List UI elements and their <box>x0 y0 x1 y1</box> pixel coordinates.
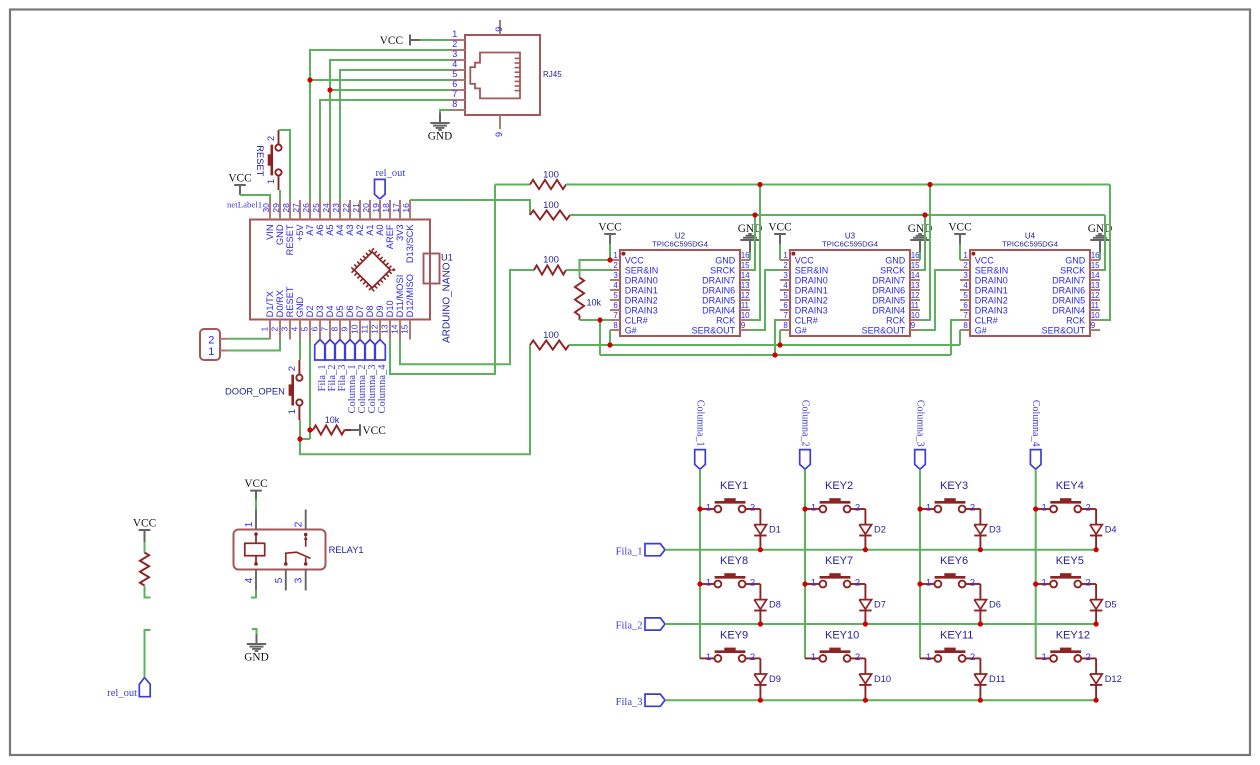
arduino pin 12 (D9) <box>370 306 385 340</box>
wire SER resistor to U2 SER&IN <box>566 269 610 271</box>
svg-text:1: 1 <box>260 327 270 332</box>
svg-text:10k: 10k <box>587 298 602 308</box>
wire Fila_1 row bus <box>665 549 1096 551</box>
svg-text:9: 9 <box>494 132 504 137</box>
junction D11 on Fila_3 <box>978 698 983 703</box>
svg-text:4: 4 <box>244 577 255 583</box>
U4 pin 16 (GND) <box>1065 251 1100 265</box>
U2 pin 12 (DRAIN5) <box>702 291 750 305</box>
svg-text:DRAIN6: DRAIN6 <box>872 285 905 295</box>
svg-text:KEY9: KEY9 <box>720 630 748 642</box>
svg-text:GND: GND <box>908 223 932 235</box>
wire CLR# bus <box>600 354 951 356</box>
svg-text:VCC: VCC <box>948 221 971 233</box>
wire rel_out stub <box>145 630 151 678</box>
svg-text:30: 30 <box>261 203 271 213</box>
svg-text:DRAIN3: DRAIN3 <box>625 305 658 315</box>
svg-text:GND: GND <box>1065 255 1086 265</box>
svg-text:KEY6: KEY6 <box>940 555 968 567</box>
wire RJ45 pin8 to GND <box>440 110 450 113</box>
svg-text:26: 26 <box>301 203 311 213</box>
svg-text:100: 100 <box>543 200 559 211</box>
svg-text:D4: D4 <box>1105 525 1117 535</box>
svg-text:1: 1 <box>926 578 931 589</box>
svg-text:5: 5 <box>613 291 618 300</box>
wire KEY10 pin2 corner <box>864 657 866 659</box>
junction RJS45 pin6/pin3 net <box>327 87 332 92</box>
relay pin 5 <box>274 570 286 591</box>
svg-text:25: 25 <box>311 203 321 213</box>
wire D11/MOSI to SER riser <box>400 270 534 364</box>
svg-text:16: 16 <box>1091 251 1100 260</box>
junction KEY7 pin1 on column <box>802 581 807 586</box>
svg-text:2: 2 <box>963 261 968 270</box>
net label flag rel_out bottom left <box>107 678 150 700</box>
svg-text:DRAIN0: DRAIN0 <box>795 275 828 285</box>
net label netLabel1 <box>227 200 262 210</box>
diode D11 <box>974 658 1005 700</box>
svg-text:1: 1 <box>706 578 711 589</box>
U4 pin 14 (DRAIN7) <box>1052 271 1100 285</box>
svg-text:D7: D7 <box>874 600 886 610</box>
svg-text:D11: D11 <box>989 674 1005 684</box>
svg-text:D5: D5 <box>335 306 345 318</box>
power flag VCC above pull resistor <box>133 517 156 542</box>
svg-text:TPIC6C595DG4: TPIC6C595DG4 <box>652 240 709 249</box>
diode D6 <box>974 584 1001 624</box>
resistor 100 SRCK bus <box>530 200 570 220</box>
svg-text:7: 7 <box>452 89 457 99</box>
U4 pin 6 (DRAIN3) <box>960 301 1008 315</box>
junction KEY4 pin1 on column <box>1033 506 1038 511</box>
wire connector pin2 to D1/TX <box>229 338 269 341</box>
svg-text:D9: D9 <box>375 306 385 318</box>
wire resistor bottom stub <box>145 586 151 598</box>
arduino pin 8 (D5) <box>330 306 345 340</box>
svg-text:D10: D10 <box>874 674 891 684</box>
svg-text:14: 14 <box>1091 271 1100 280</box>
svg-text:3V3: 3V3 <box>395 224 405 241</box>
wire SRCK bus <box>570 214 1105 216</box>
svg-text:KEY5: KEY5 <box>1056 555 1084 567</box>
svg-text:1: 1 <box>811 652 816 663</box>
svg-text:DRAIN0: DRAIN0 <box>625 275 658 285</box>
net label flag Fila_2 under arduino <box>325 340 338 392</box>
svg-text:10k: 10k <box>325 415 340 425</box>
wire VCC to RJ45 pin1 <box>420 39 450 41</box>
junction U3 CLR# on bus <box>772 352 777 357</box>
svg-text:22: 22 <box>341 203 351 213</box>
svg-text:A5: A5 <box>325 224 335 235</box>
wire D2 net corner <box>300 438 310 440</box>
pushbutton KEY2 <box>805 480 865 513</box>
svg-text:DRAIN7: DRAIN7 <box>1052 275 1085 285</box>
power flag VCC at RJ45 pin 1 <box>380 35 420 48</box>
wire KEY6 pin2 corner <box>979 583 981 585</box>
svg-text:DRAIN2: DRAIN2 <box>795 295 828 305</box>
wire D2 net to G# bus riser <box>300 345 530 454</box>
svg-text:D12: D12 <box>1105 674 1122 684</box>
svg-text:1: 1 <box>706 652 711 663</box>
wire U4 RCK riser <box>1100 185 1110 321</box>
svg-text:KEY3: KEY3 <box>940 480 968 492</box>
U3 pin 7 (CLR#) <box>780 311 818 325</box>
U2 pin 16 (GND) <box>715 251 750 265</box>
svg-text:Fila_2: Fila_2 <box>616 621 643 632</box>
relay pin 2 <box>294 510 306 530</box>
U3 pin 16 (GND) <box>885 251 920 265</box>
svg-text:1: 1 <box>706 503 711 514</box>
U2 pin 4 (DRAIN1) <box>610 281 658 295</box>
svg-text:DRAIN0: DRAIN0 <box>975 275 1008 285</box>
svg-text:15: 15 <box>1091 261 1100 270</box>
svg-text:10: 10 <box>741 311 750 320</box>
svg-text:11: 11 <box>360 325 370 334</box>
resistor 100 G# bus <box>530 330 569 350</box>
power flag VCC at 10k <box>351 424 386 437</box>
U3 pin 8 (G#) <box>780 321 807 335</box>
svg-text:2: 2 <box>750 652 755 663</box>
connector RJ45 body <box>465 35 562 115</box>
wire RESET pin1 to arduino pin29 <box>279 190 281 200</box>
diode D1 <box>754 509 781 550</box>
svg-text:15: 15 <box>400 324 410 334</box>
junction KEY6 pin1 on column <box>917 581 922 586</box>
wire arduino D2 down to 10k <box>309 340 311 440</box>
svg-text:SER&IN: SER&IN <box>625 265 659 275</box>
junction D9 on Fila_3 <box>758 698 763 703</box>
svg-text:9: 9 <box>1091 321 1096 330</box>
svg-text:DOOR_OPEN: DOOR_OPEN <box>225 386 285 397</box>
U3 pin 1 (VCC) <box>780 251 814 265</box>
U2 pin 6 (DRAIN3) <box>610 301 658 315</box>
svg-text:1: 1 <box>963 251 968 260</box>
wire RJ45 pin2 to A7 (vertical x=310) <box>310 50 450 200</box>
wire U4 G# to bus <box>959 330 961 345</box>
svg-text:8: 8 <box>963 321 968 330</box>
svg-text:9: 9 <box>340 327 350 332</box>
U4 pin 13 (DRAIN6) <box>1052 281 1100 295</box>
svg-text:14: 14 <box>741 271 750 280</box>
svg-text:2: 2 <box>287 366 298 371</box>
svg-text:3: 3 <box>613 271 618 280</box>
svg-text:DRAIN1: DRAIN1 <box>625 285 658 295</box>
svg-text:2: 2 <box>208 335 214 347</box>
svg-text:GND: GND <box>715 255 736 265</box>
svg-text:Fila_1: Fila_1 <box>616 546 643 557</box>
svg-text:10: 10 <box>1091 311 1100 320</box>
wire RESET pin2 to arduino pin28 <box>279 130 291 200</box>
svg-text:G#: G# <box>625 325 637 335</box>
junction KEY1 pin1 on column <box>697 506 702 511</box>
junction SRCK bus at U2 <box>752 212 757 217</box>
svg-text:DRAIN7: DRAIN7 <box>702 275 735 285</box>
svg-text:5: 5 <box>300 327 310 332</box>
diode D12 <box>1090 658 1122 700</box>
U2 pin 7 (CLR#) <box>610 311 648 325</box>
svg-text:17: 17 <box>391 203 401 213</box>
svg-text:6: 6 <box>310 327 320 332</box>
svg-text:29: 29 <box>271 203 281 213</box>
svg-text:SER&OUT: SER&OUT <box>692 325 736 335</box>
svg-text:VCC: VCC <box>380 35 403 47</box>
pushbutton KEY1 <box>700 480 760 513</box>
svg-text:SRCK: SRCK <box>880 265 905 275</box>
U3 pin 3 (DRAIN0) <box>780 271 828 285</box>
svg-text:DRAIN2: DRAIN2 <box>625 295 658 305</box>
wire U3 CLR# to bus <box>775 320 780 355</box>
arduino pin 5 (D2) <box>300 306 315 340</box>
diode D4 <box>1090 509 1117 550</box>
svg-text:2: 2 <box>970 652 975 663</box>
wire KEY9 pin2 corner <box>759 657 761 659</box>
U2 pin 5 (DRAIN2) <box>610 291 658 305</box>
svg-text:1: 1 <box>1042 503 1047 514</box>
svg-text:2: 2 <box>1086 503 1091 514</box>
svg-text:netLabel1: netLabel1 <box>227 200 262 210</box>
net label flag Columna_3 keypad <box>915 400 926 469</box>
svg-text:ARDUINO_NANO: ARDUINO_NANO <box>442 262 453 343</box>
svg-text:7: 7 <box>320 327 330 332</box>
svg-text:1: 1 <box>783 251 788 260</box>
arduino pin 11 (D8) <box>360 306 375 340</box>
junction RCK bus at U2 <box>757 182 762 187</box>
arduino pin 9 (D6) <box>340 306 355 340</box>
svg-text:D0/RX: D0/RX <box>275 290 285 317</box>
svg-text:28: 28 <box>281 203 291 213</box>
U2 pin 13 (DRAIN6) <box>702 281 750 295</box>
arduino pin 21 (A2) <box>351 200 365 236</box>
junction D7 on Fila_2 <box>863 621 868 626</box>
svg-text:AREF: AREF <box>385 224 395 249</box>
svg-text:D6: D6 <box>989 600 1001 610</box>
svg-text:2: 2 <box>855 503 860 514</box>
svg-text:CLR#: CLR# <box>795 315 818 325</box>
svg-text:12: 12 <box>911 291 920 300</box>
svg-text:6: 6 <box>452 79 457 89</box>
svg-text:RELAY1: RELAY1 <box>329 545 364 555</box>
svg-text:Columna_2: Columna_2 <box>800 400 811 447</box>
svg-text:12: 12 <box>741 291 750 300</box>
RJ45 pin 1 <box>450 29 465 40</box>
svg-text:GND: GND <box>885 255 906 265</box>
arduino pin 13 (D10) <box>380 300 395 339</box>
U3 pin 4 (DRAIN1) <box>780 281 828 295</box>
svg-text:DRAIN2: DRAIN2 <box>975 295 1008 305</box>
ground flag GND at U2 pin16 <box>738 223 762 260</box>
arduino pin 23 (A4) <box>331 200 345 236</box>
diode D3 <box>974 509 1001 550</box>
U4 pin 12 (DRAIN5) <box>1052 291 1100 305</box>
arduino pin 22 (A3) <box>341 200 355 236</box>
svg-text:D6: D6 <box>345 306 355 318</box>
U3 pin 2 (SER&IN) <box>780 261 828 275</box>
junction D3 on Fila_1 <box>978 547 983 552</box>
arduino pin 17 (3V3) <box>391 200 405 241</box>
U4 pin 5 (DRAIN2) <box>960 291 1008 305</box>
U4 pin 2 (SER&IN) <box>960 261 1008 275</box>
svg-text:TPIC6C595DG4: TPIC6C595DG4 <box>1002 240 1059 249</box>
arduino pin 19 (A0) <box>371 200 385 236</box>
svg-text:10: 10 <box>350 324 360 334</box>
svg-text:2: 2 <box>613 261 618 270</box>
svg-text:3: 3 <box>294 577 305 583</box>
U4 pin 3 (DRAIN0) <box>960 271 1008 285</box>
svg-text:KEY2: KEY2 <box>825 480 853 492</box>
svg-text:D10: D10 <box>385 300 395 317</box>
junction KEY8 pin1 on column <box>697 581 702 586</box>
svg-text:7: 7 <box>963 311 968 320</box>
wire KEY4 pin2 corner <box>1095 508 1097 510</box>
svg-text:VCC: VCC <box>363 425 386 437</box>
junction DOOR_OPEN/D2 net <box>297 436 302 441</box>
svg-text:2: 2 <box>750 503 755 514</box>
junction KEY5 pin1 on column <box>1033 581 1038 586</box>
RJ45 pin 4 <box>450 59 465 70</box>
svg-text:23: 23 <box>331 203 341 213</box>
svg-text:1: 1 <box>1042 578 1047 589</box>
svg-text:A4: A4 <box>335 224 345 235</box>
diode D10 <box>859 658 891 700</box>
net label flag Columna_1 keypad <box>695 400 706 469</box>
U3 pin 9 (SER&OUT) <box>862 321 920 335</box>
svg-text:SER&IN: SER&IN <box>975 265 1009 275</box>
wire KEY3 pin2 corner <box>979 508 981 510</box>
pushbutton KEY8 <box>700 555 760 588</box>
svg-text:KEY11: KEY11 <box>940 630 973 642</box>
svg-text:11: 11 <box>911 301 920 310</box>
junction U2 G# on bus <box>607 342 612 347</box>
svg-text:18: 18 <box>381 203 391 213</box>
wire KEY2 pin2 corner <box>864 508 866 510</box>
arduino U1 fuse box and label <box>424 253 453 344</box>
wire U2 G# to bus <box>609 330 611 345</box>
wire G# bus <box>569 344 960 346</box>
U2 pin 15 (SRCK) <box>710 261 750 275</box>
arduino pin 14 (D11/MOSI) <box>390 275 405 340</box>
relay contact <box>284 533 311 566</box>
svg-text:1: 1 <box>266 179 277 184</box>
arduino pin 29 (GND) <box>271 200 285 245</box>
RJ45 pin 9 bottom <box>494 115 504 137</box>
arduino pin 6 (D3) <box>310 306 325 340</box>
diode D5 <box>1090 584 1117 624</box>
wire KEY12 pin2 corner <box>1095 657 1097 659</box>
svg-text:Columna_4: Columna_4 <box>1030 400 1041 447</box>
svg-text:4: 4 <box>963 281 968 290</box>
svg-text:3: 3 <box>963 271 968 280</box>
junction D10 on Fila_3 <box>863 698 868 703</box>
svg-text:4: 4 <box>783 281 788 290</box>
svg-text:100: 100 <box>543 255 559 266</box>
arduino nano U1 body <box>250 220 430 320</box>
U4 pin 11 (DRAIN4) <box>1052 301 1100 315</box>
arduino pin 4 (GND) <box>290 296 305 339</box>
U4 pin 10 (RCK) <box>1066 311 1100 325</box>
relay pin 1 <box>244 510 256 530</box>
wire Fila_3 row bus <box>665 699 1096 701</box>
svg-text:DRAIN5: DRAIN5 <box>1052 295 1085 305</box>
wire U2 SRCK riser <box>750 215 755 270</box>
svg-text:VCC: VCC <box>133 517 156 529</box>
svg-text:2: 2 <box>1086 578 1091 589</box>
svg-text:SRCK: SRCK <box>1060 265 1085 275</box>
svg-text:13: 13 <box>1091 281 1100 290</box>
U2 pin 9 (SER&OUT) <box>692 321 750 335</box>
net label flag rel_out at arduino A0 <box>375 168 406 199</box>
svg-text:DRAIN3: DRAIN3 <box>975 305 1008 315</box>
svg-text:Columna_3: Columna_3 <box>915 400 926 447</box>
net label flag Columna_2 under arduino <box>355 340 368 414</box>
net label flag Columna_3 under arduino <box>365 340 378 414</box>
svg-text:KEY7: KEY7 <box>825 555 853 567</box>
net label flag Fila_3 <box>616 694 665 708</box>
svg-text:D5: D5 <box>1105 600 1117 610</box>
RJ45 pin 5 <box>450 69 465 80</box>
svg-text:4: 4 <box>290 327 300 332</box>
svg-text:G#: G# <box>975 325 987 335</box>
svg-text:KEY4: KEY4 <box>1056 480 1084 492</box>
svg-text:24: 24 <box>321 203 331 213</box>
resistor 10k pull-up at DOOR_OPEN <box>310 415 351 435</box>
RJ45 pin 3 <box>450 49 465 60</box>
svg-text:RESET: RESET <box>285 286 295 317</box>
svg-text:DRAIN5: DRAIN5 <box>702 295 735 305</box>
svg-text:DRAIN7: DRAIN7 <box>872 275 905 285</box>
svg-text:DRAIN1: DRAIN1 <box>975 285 1008 295</box>
svg-text:D13/SCK: D13/SCK <box>405 224 415 264</box>
svg-text:8: 8 <box>613 321 618 330</box>
resistor pull at rel_out <box>140 553 149 586</box>
svg-text:A2: A2 <box>355 224 365 235</box>
U3 pin 12 (DRAIN5) <box>872 291 920 305</box>
wire DOOR_OPEN pin1 down <box>299 420 301 439</box>
net label flag Columna_4 under arduino <box>375 340 388 414</box>
diode D2 <box>859 509 886 550</box>
svg-text:5: 5 <box>452 69 457 79</box>
svg-text:1: 1 <box>208 346 214 358</box>
svg-text:KEY8: KEY8 <box>720 555 748 567</box>
net label flag Fila_3 under arduino <box>335 340 348 392</box>
pushbutton KEY10 <box>805 630 865 663</box>
U2 pin 1 (VCC) <box>610 251 644 265</box>
svg-text:RCK: RCK <box>716 315 735 325</box>
svg-text:8: 8 <box>783 321 788 330</box>
wire connector pin1 to D0/RX <box>229 340 280 351</box>
svg-text:6: 6 <box>963 301 968 310</box>
RJ45 pin 9 top <box>494 20 504 35</box>
junction SRCK bus at U3 <box>922 212 927 217</box>
svg-text:5: 5 <box>274 577 285 583</box>
svg-text:D2: D2 <box>874 525 886 535</box>
U3 pin 11 (DRAIN4) <box>872 301 920 315</box>
svg-text:KEY1: KEY1 <box>720 480 748 492</box>
U2 pin 14 (DRAIN7) <box>702 271 750 285</box>
RJ45 jack symbol <box>470 53 520 99</box>
svg-text:2: 2 <box>452 39 457 49</box>
net label flag Columna_4 keypad <box>1030 400 1041 469</box>
svg-text:100: 100 <box>543 170 559 181</box>
svg-text:1: 1 <box>926 503 931 514</box>
wire DOOR_OPEN pin2 to arduino GND pin4 <box>299 340 301 361</box>
wire CLR# down to bus <box>599 320 601 355</box>
net label flag Fila_2 <box>616 618 665 632</box>
power flag VCC at U4 pin1 <box>948 221 971 260</box>
wire Fila_2 row bus <box>665 623 1096 625</box>
RJ45 pin 6 <box>450 79 465 90</box>
arduino pin 25 (A6) <box>311 200 325 236</box>
arduino pin 26 (A7) <box>301 200 315 236</box>
